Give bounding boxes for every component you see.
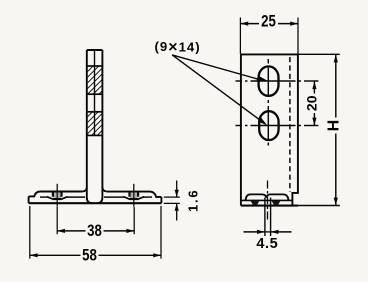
svg-text:20: 20 (304, 95, 320, 111)
svg-text:H: H (326, 120, 343, 132)
svg-text:(9×14): (9×14) (155, 38, 201, 55)
svg-text:25: 25 (261, 12, 276, 31)
svg-text:4.5: 4.5 (256, 236, 278, 252)
svg-text:58: 58 (82, 246, 97, 265)
svg-text:38: 38 (87, 221, 102, 240)
svg-text:1.6: 1.6 (185, 189, 200, 212)
